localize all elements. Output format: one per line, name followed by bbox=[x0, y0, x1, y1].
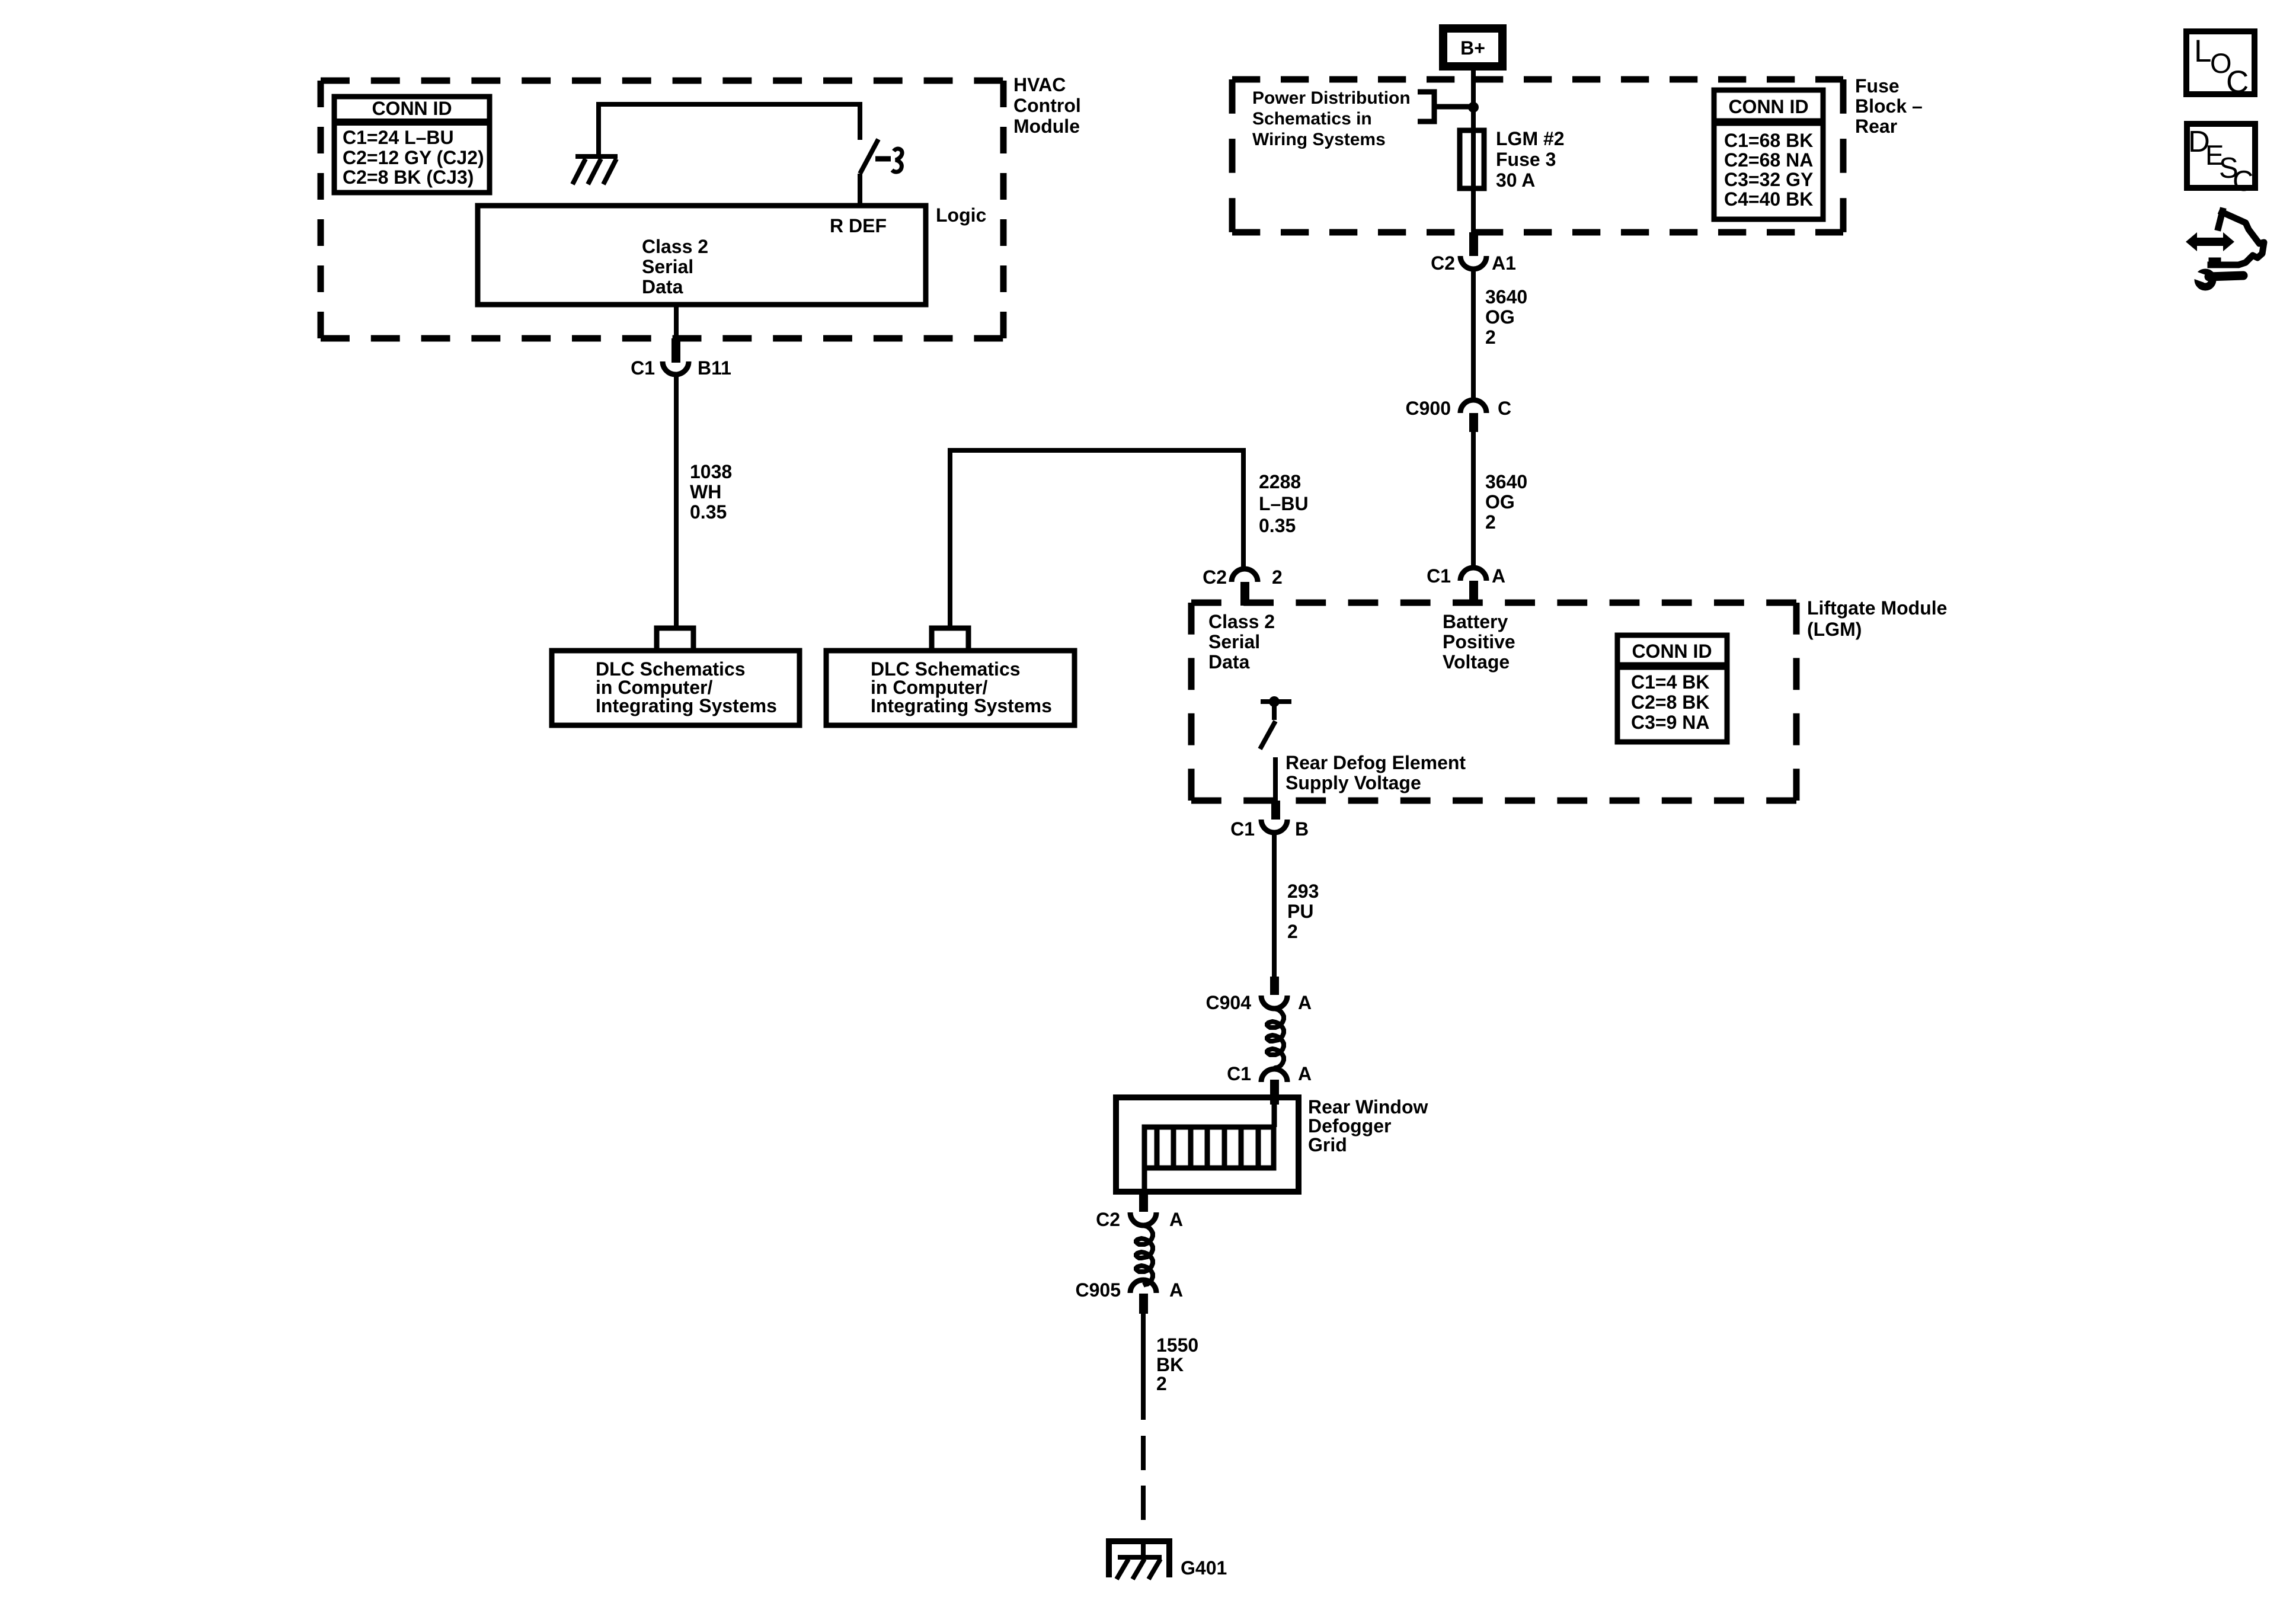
svg-text:OG: OG bbox=[1485, 491, 1515, 513]
ground G401 bbox=[1106, 1541, 1172, 1579]
svg-text:Power Distribution: Power Distribution bbox=[1252, 88, 1411, 108]
svg-text:BK: BK bbox=[1156, 1354, 1184, 1375]
svg-text:Module: Module bbox=[1013, 116, 1080, 137]
svg-text:B11: B11 bbox=[698, 357, 731, 379]
connector C1/B11 bbox=[631, 338, 731, 379]
inline connector C904/A with coil to C1/A bbox=[1206, 977, 1312, 1013]
svg-text:C3=9 NA: C3=9 NA bbox=[1631, 712, 1710, 733]
svg-text:Integrating Systems: Integrating Systems bbox=[871, 695, 1052, 716]
wire logic box to C1/B11 bbox=[674, 305, 679, 338]
svg-text:C900: C900 bbox=[1406, 398, 1451, 419]
svg-text:Supply Voltage: Supply Voltage bbox=[1285, 772, 1421, 793]
svg-text:2: 2 bbox=[1485, 327, 1496, 348]
svg-text:30 A: 30 A bbox=[1496, 169, 1535, 191]
Logic box bbox=[478, 206, 926, 305]
svg-text:Schematics in: Schematics in bbox=[1252, 109, 1372, 129]
DLC box 1 bbox=[552, 651, 800, 725]
svg-text:C: C bbox=[1498, 398, 1511, 419]
svg-text:Serial: Serial bbox=[642, 256, 693, 277]
svg-text:Voltage: Voltage bbox=[1443, 651, 1510, 673]
wire to ground (dashed, off-page) bbox=[1141, 1436, 1146, 1520]
wire B+ down bbox=[1471, 71, 1476, 130]
svg-text:WH: WH bbox=[690, 481, 721, 502]
wire down to DLC tab bbox=[674, 376, 679, 628]
junction dot bbox=[1468, 102, 1479, 113]
svg-text:1038: 1038 bbox=[690, 461, 732, 482]
svg-text:LGM #2: LGM #2 bbox=[1496, 128, 1565, 149]
svg-text:CONN ID: CONN ID bbox=[1728, 96, 1808, 117]
svg-text:0.35: 0.35 bbox=[1259, 515, 1296, 536]
svg-text:C1=4 BK: C1=4 BK bbox=[1631, 671, 1710, 693]
svg-text:Wiring Systems: Wiring Systems bbox=[1252, 130, 1386, 149]
svg-text:1550: 1550 bbox=[1156, 1334, 1198, 1356]
svg-text:A: A bbox=[1169, 1209, 1183, 1230]
svg-text:CONN ID: CONN ID bbox=[372, 98, 452, 119]
wire fuse down to border bbox=[1471, 188, 1476, 232]
svg-text:PU: PU bbox=[1287, 901, 1313, 922]
wire 3640 OG 2 segment (C900 to LGM C1/A) bbox=[1471, 432, 1476, 566]
svg-text:Block –: Block – bbox=[1855, 95, 1923, 117]
svg-text:A: A bbox=[1298, 1063, 1312, 1084]
wire: internal ground to switch bbox=[599, 104, 860, 156]
svg-text:Class 2: Class 2 bbox=[1208, 611, 1275, 632]
svg-text:A1: A1 bbox=[1492, 252, 1516, 274]
svg-text:Control: Control bbox=[1013, 95, 1081, 116]
svg-text:C2: C2 bbox=[1203, 566, 1227, 588]
svg-text:C1: C1 bbox=[631, 357, 655, 379]
svg-text:Defogger: Defogger bbox=[1308, 1115, 1391, 1137]
HVAC Control Module label bbox=[1013, 74, 1081, 137]
Liftgate Module dashed box bbox=[1191, 603, 1796, 801]
connector C905/A bbox=[1076, 1279, 1184, 1314]
svg-text:Fuse 3: Fuse 3 bbox=[1496, 149, 1556, 170]
CONN ID table (HVAC) bbox=[334, 97, 490, 193]
svg-text:Serial: Serial bbox=[1208, 631, 1260, 652]
fuse LGM #2 bbox=[1460, 130, 1484, 188]
connector C2/A below grid bbox=[1096, 1192, 1183, 1230]
B+ battery symbol bbox=[1443, 28, 1502, 66]
LOC icon bbox=[2186, 31, 2255, 100]
svg-text:C: C bbox=[2233, 165, 2253, 197]
connector C1/A (grid side of C904) bbox=[1227, 1063, 1312, 1105]
svg-text:Grid: Grid bbox=[1308, 1134, 1347, 1156]
svg-text:L: L bbox=[2194, 34, 2211, 69]
connector C1/B bbox=[1230, 801, 1309, 840]
switch R DEF bbox=[860, 139, 902, 206]
class 2 serial data wire to LGM bbox=[950, 450, 1243, 628]
svg-text:3640: 3640 bbox=[1485, 286, 1527, 308]
svg-text:Rear Defog Element: Rear Defog Element bbox=[1285, 752, 1466, 773]
svg-text:C1=24 L–BU: C1=24 L–BU bbox=[343, 127, 454, 148]
svg-text:Data: Data bbox=[1208, 651, 1250, 673]
svg-text:C904: C904 bbox=[1206, 992, 1252, 1013]
DESC icon bbox=[2187, 124, 2255, 197]
svg-text:C1: C1 bbox=[1427, 565, 1451, 587]
Rear Window Defogger Grid bbox=[1116, 1097, 1299, 1192]
connector C2/2 (LGM top left) bbox=[1203, 566, 1283, 606]
svg-text:C1=68 BK: C1=68 BK bbox=[1724, 130, 1813, 151]
svg-text:C2=68 NA: C2=68 NA bbox=[1724, 149, 1813, 171]
wire 1550 BK 2 segment (C905 to ground) bbox=[1141, 1314, 1146, 1420]
svg-text:G401: G401 bbox=[1181, 1557, 1227, 1579]
svg-text:OG: OG bbox=[1485, 306, 1515, 328]
svg-text:L–BU: L–BU bbox=[1259, 493, 1309, 514]
svg-text:C2=8 BK (CJ3): C2=8 BK (CJ3) bbox=[343, 167, 474, 188]
wire 293 PU 2 segment (C1/B to C904) bbox=[1272, 833, 1277, 977]
connector C2/A1 bbox=[1431, 232, 1516, 274]
connector C900/C bbox=[1406, 398, 1512, 432]
CONN ID table (Fuse block) bbox=[1714, 90, 1823, 219]
svg-text:C2: C2 bbox=[1096, 1209, 1120, 1230]
LGM internal switch bbox=[1260, 702, 1291, 801]
svg-text:C2=8 BK: C2=8 BK bbox=[1631, 692, 1710, 713]
connector C1/A (LGM top) bbox=[1427, 565, 1505, 606]
svg-text:Rear: Rear bbox=[1855, 116, 1897, 137]
svg-text:Fuse: Fuse bbox=[1855, 75, 1900, 97]
svg-text:A: A bbox=[1492, 565, 1505, 587]
svg-text:C2=12 GY (CJ2): C2=12 GY (CJ2) bbox=[343, 147, 484, 168]
svg-text:A: A bbox=[1169, 1279, 1183, 1301]
svg-text:2: 2 bbox=[1287, 921, 1298, 942]
svg-text:C3=32 GY: C3=32 GY bbox=[1724, 169, 1813, 190]
svg-text:293: 293 bbox=[1287, 881, 1319, 902]
svg-text:B: B bbox=[1295, 818, 1309, 840]
svg-text:Rear Window: Rear Window bbox=[1308, 1096, 1428, 1118]
coil bbox=[1267, 1009, 1284, 1068]
svg-text:(LGM): (LGM) bbox=[1807, 619, 1862, 640]
svg-text:Integrating Systems: Integrating Systems bbox=[596, 695, 777, 716]
svg-text:Class 2: Class 2 bbox=[642, 236, 708, 257]
svg-text:C: C bbox=[2226, 65, 2249, 100]
svg-text:C4=40 BK: C4=40 BK bbox=[1724, 188, 1813, 210]
svg-text:Positive: Positive bbox=[1443, 631, 1515, 652]
svg-text:R DEF: R DEF bbox=[830, 215, 887, 236]
svg-text:C1: C1 bbox=[1230, 818, 1255, 840]
DLC box 2 tab bbox=[932, 628, 968, 651]
vehicle/arrow/wrench icon bbox=[2186, 211, 2264, 287]
svg-text:CONN ID: CONN ID bbox=[1632, 641, 1712, 662]
svg-text:0.35: 0.35 bbox=[690, 501, 727, 523]
Fuse Block - Rear dashed box bbox=[1232, 79, 1843, 232]
svg-text:C905: C905 bbox=[1076, 1279, 1121, 1301]
bracket callout bbox=[1418, 92, 1473, 121]
svg-text:B+: B+ bbox=[1460, 37, 1485, 59]
svg-text:2: 2 bbox=[1485, 511, 1496, 533]
svg-text:C2: C2 bbox=[1431, 252, 1455, 274]
HVAC Control Module dashed box bbox=[321, 81, 1003, 338]
svg-text:2: 2 bbox=[1156, 1373, 1167, 1394]
svg-text:2288: 2288 bbox=[1259, 471, 1301, 492]
wire 3640 OG 2 segment (C2/A1 to C900) bbox=[1471, 270, 1476, 400]
svg-text:C1: C1 bbox=[1227, 1063, 1251, 1084]
svg-text:Liftgate Module: Liftgate Module bbox=[1807, 597, 1947, 619]
svg-text:3640: 3640 bbox=[1485, 471, 1527, 492]
coil 2 bbox=[1136, 1225, 1153, 1285]
DLC box 1 tab bbox=[657, 628, 693, 651]
svg-text:Logic: Logic bbox=[936, 204, 986, 226]
svg-text:2: 2 bbox=[1272, 566, 1283, 588]
CONN ID table (LGM) bbox=[1617, 635, 1727, 742]
svg-text:Data: Data bbox=[642, 276, 683, 297]
svg-text:HVAC: HVAC bbox=[1013, 74, 1066, 95]
ground (HVAC internal) bbox=[573, 156, 618, 184]
svg-text:A: A bbox=[1298, 992, 1312, 1013]
DLC box 2 bbox=[826, 651, 1075, 725]
svg-text:Battery: Battery bbox=[1443, 611, 1508, 632]
